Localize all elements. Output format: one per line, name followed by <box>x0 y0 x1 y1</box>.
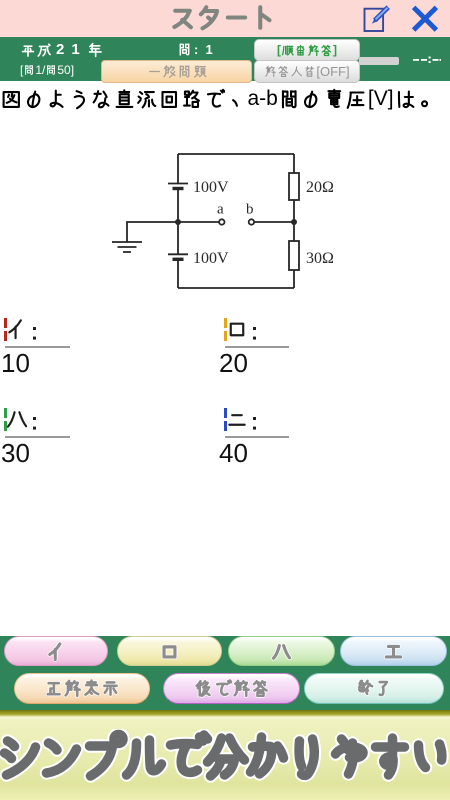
question text <box>0 87 439 111</box>
svg-text:20Ω: 20Ω <box>306 179 334 196</box>
button エ <box>340 636 447 666</box>
close X icon <box>410 4 440 32</box>
wire right upper <box>293 154 295 173</box>
option ニ <box>224 408 227 431</box>
edit icon <box>360 4 394 34</box>
circuit schematic <box>100 140 350 300</box>
junction right <box>291 219 297 225</box>
svg-text:a: a <box>217 202 224 218</box>
button 終了 <box>304 673 444 704</box>
wire left middle <box>177 189 179 255</box>
ground wire <box>127 222 178 242</box>
resistor 30ohm box <box>289 241 299 270</box>
平成２１年 <box>20 41 103 58</box>
svg-text:100V: 100V <box>193 179 229 196</box>
解答入替[OFF] button <box>254 60 360 83</box>
option イ <box>4 318 7 341</box>
progress bar <box>359 57 399 65</box>
bottom green panel <box>0 636 450 710</box>
title スタート <box>169 4 277 31</box>
svg-text:b: b <box>246 202 254 218</box>
clock --:-- <box>413 55 443 65</box>
button ハ <box>228 636 335 666</box>
banner text シンプルで分かりやすい <box>0 729 450 783</box>
button ロ <box>117 636 222 666</box>
[順番解答] button <box>254 39 360 61</box>
battery B2 100V <box>168 253 188 255</box>
terminal b <box>249 219 254 224</box>
[問1/問50] <box>20 63 74 77</box>
wire middle to a <box>178 221 219 223</box>
button 正解表示 <box>14 673 150 704</box>
wire b to right <box>254 221 294 223</box>
terminal a <box>219 219 224 224</box>
junction left <box>175 219 181 225</box>
wire top <box>178 153 294 155</box>
ad banner <box>0 710 450 800</box>
wire right lower <box>293 270 295 288</box>
問：1 <box>177 42 213 57</box>
svg-text:100V: 100V <box>193 250 229 267</box>
svg-text:30Ω: 30Ω <box>306 250 334 267</box>
option ロ <box>224 318 227 341</box>
一般問題 tab <box>101 60 252 83</box>
wire right middle <box>293 200 295 241</box>
green header <box>0 37 450 81</box>
battery B1 100V <box>168 183 188 185</box>
ground bars <box>112 242 142 252</box>
button 後で解答 <box>163 673 300 704</box>
title bar <box>0 0 450 37</box>
wire bottom <box>178 287 294 289</box>
wire left upper <box>177 154 179 184</box>
button イ <box>4 636 108 666</box>
wire left lower <box>177 259 179 288</box>
option ハ <box>4 408 7 431</box>
resistor 20ohm box <box>289 173 299 200</box>
